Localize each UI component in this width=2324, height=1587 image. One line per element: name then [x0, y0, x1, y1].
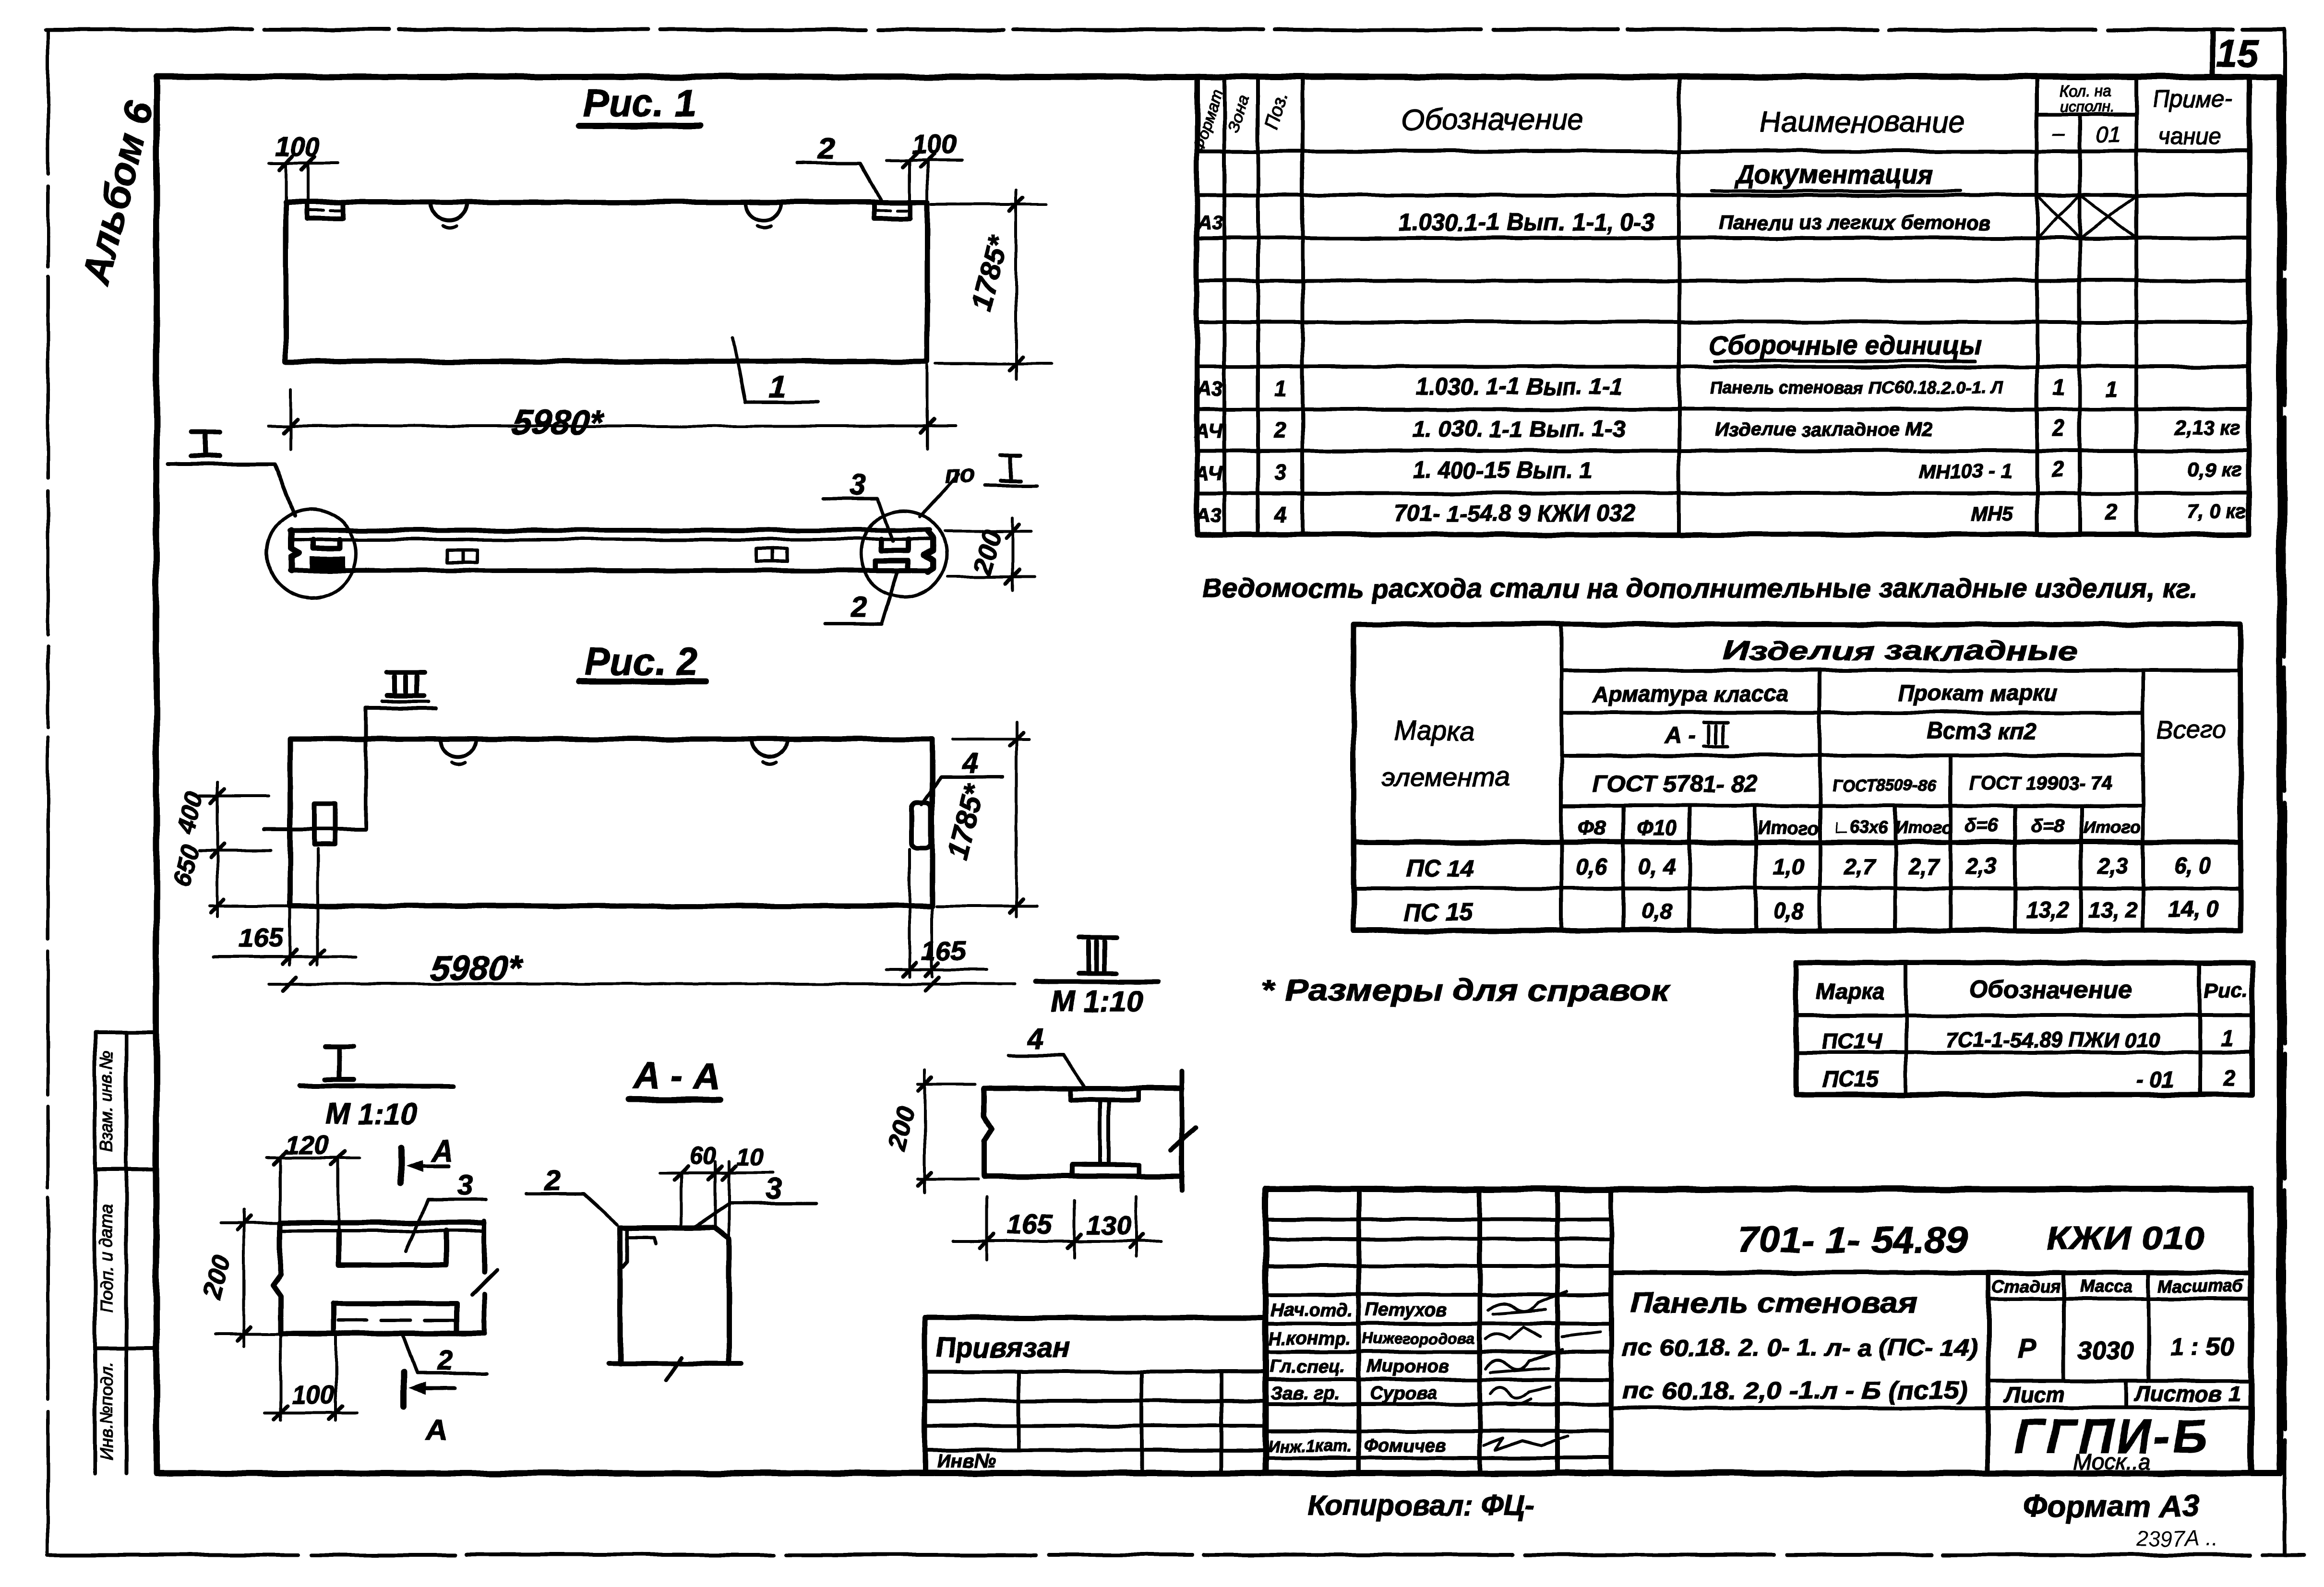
- svg-text:Итого: Итого: [1758, 818, 1819, 838]
- svg-text:1: 1: [2052, 374, 2065, 399]
- svg-text:пс 60.18. 2. 0- 1. л- а (ПС- 1: пс 60.18. 2. 0- 1. л- а (ПС- 14): [1622, 1334, 1977, 1361]
- steel table row ПС14: [1406, 853, 2211, 882]
- svg-text:2: 2: [2052, 416, 2065, 441]
- svg-text:60: 60: [689, 1142, 716, 1169]
- svg-text:Приме-: Приме-: [2153, 86, 2232, 112]
- fig1 title Рис.1: [579, 82, 700, 126]
- svg-text:Гл.спец.: Гл.спец.: [1270, 1357, 1345, 1377]
- svg-text:АЧ: АЧ: [1194, 419, 1223, 442]
- svg-text:Инв№: Инв№: [937, 1451, 996, 1472]
- svg-text:5980*: 5980*: [509, 404, 606, 442]
- title block signature rows: [1268, 1291, 1601, 1456]
- svg-text:1785*: 1785*: [941, 780, 991, 862]
- svg-text:15: 15: [2216, 32, 2260, 74]
- fig2 embedded plate 4 right: [911, 802, 931, 848]
- fig2 dim 5980: [269, 949, 1015, 990]
- svg-text:МН103 - 1: МН103 - 1: [1918, 460, 2013, 482]
- title block stadia row: [1992, 1276, 2244, 1407]
- svg-text:ВстЗ кп2: ВстЗ кп2: [1927, 719, 2036, 744]
- view A-A dims 60 10: [660, 1142, 773, 1236]
- svg-text:А3: А3: [1196, 378, 1222, 400]
- svg-text:Итого: Итого: [1895, 817, 1953, 837]
- svg-text:3030: 3030: [2078, 1337, 2134, 1365]
- svg-text:0,9 кг: 0,9 кг: [2188, 458, 2242, 480]
- section III dim 200: [882, 1070, 978, 1193]
- fig2 panel outline: [290, 739, 932, 906]
- fig2 dim 165 right: [886, 849, 986, 977]
- plan view callout по I: [920, 455, 1038, 516]
- bottom handwritten number: [2135, 1526, 2218, 1551]
- plan view right top notch item3: [881, 539, 908, 551]
- svg-text:1785*: 1785*: [965, 232, 1015, 314]
- svg-text:Нижегородова: Нижегородова: [1362, 1330, 1475, 1347]
- svg-text:Всего: Всего: [2157, 716, 2226, 744]
- svg-text:Изделия закладные: Изделия закладные: [1723, 635, 2078, 666]
- fig2 embedded plate 4 left: [314, 804, 335, 845]
- fig1 dim 100 right: [886, 129, 962, 202]
- svg-text:КЖИ 010: КЖИ 010: [2046, 1220, 2204, 1257]
- left strip label Взам.инв.№: [96, 1050, 116, 1153]
- svg-text:Панели из легких бетонов: Панели из легких бетонов: [1719, 211, 1991, 234]
- mark table grid: [1796, 963, 2252, 1095]
- svg-text:А - А: А - А: [632, 1054, 720, 1097]
- svg-text:650: 650: [168, 842, 205, 889]
- svg-text:Фомичев: Фомичев: [1364, 1436, 1446, 1456]
- section I top groove: [338, 1231, 446, 1265]
- svg-text:701- 1- 54.89: 701- 1- 54.89: [1737, 1220, 1968, 1261]
- page number 15 box: [2213, 32, 2260, 76]
- fig1 left groove: [307, 203, 343, 218]
- svg-text:100: 100: [291, 1381, 335, 1409]
- spec table row pos2: [1194, 416, 2241, 442]
- svg-text:Взам. инв.№: Взам. инв.№: [96, 1050, 116, 1153]
- section I body: [273, 1221, 497, 1334]
- svg-text:Подп. и дата: Подп. и дата: [96, 1205, 116, 1313]
- outer cut border right: [2283, 30, 2287, 1555]
- fig1 callout 1 leader: [732, 338, 818, 404]
- view A-A callout 3: [695, 1172, 816, 1227]
- fig1 panel outline: [286, 202, 927, 361]
- svg-text:7, 0 кг: 7, 0 кг: [2186, 500, 2246, 523]
- fig2 dim 1785: [936, 722, 1037, 917]
- fig1 lifting recess arc left: [431, 203, 467, 227]
- svg-text:400: 400: [171, 789, 209, 836]
- fig2 dim 165 left: [214, 849, 355, 965]
- svg-text:0,8: 0,8: [1641, 898, 1672, 923]
- fig2 callout 4: [922, 748, 1002, 804]
- svg-text:Марка: Марка: [1817, 979, 1885, 1004]
- svg-text:701- 1-54.8 9 КЖИ 032: 701- 1-54.8 9 КЖИ 032: [1394, 501, 1635, 526]
- svg-text:Миронов: Миронов: [1367, 1357, 1449, 1377]
- outer cut border bottom: [48, 1553, 2304, 1557]
- svg-text:ПС15: ПС15: [1822, 1067, 1879, 1092]
- section I dim 100: [265, 1335, 358, 1420]
- section I marker with scale: [300, 1047, 453, 1131]
- plan view middle slot pair left: [447, 550, 477, 562]
- svg-text:δ=8: δ=8: [2031, 815, 2065, 836]
- svg-text:Зона: Зона: [1224, 93, 1253, 134]
- view A-A callout 2: [527, 1164, 617, 1225]
- svg-text:1.030. 1-1 Вып. 1-1: 1.030. 1-1 Вып. 1-1: [1416, 374, 1623, 400]
- svg-text:Рис. 1: Рис. 1: [583, 82, 696, 124]
- svg-text:А3: А3: [1195, 504, 1222, 526]
- section III callout 4: [1008, 1023, 1084, 1086]
- svg-text:ПС 14: ПС 14: [1406, 855, 1474, 882]
- spec table header texts: [1189, 82, 2232, 155]
- plan view bar body: [290, 530, 930, 571]
- left stamp strip boxes: [95, 1033, 156, 1473]
- svg-text:Панель стеновая: Панель стеновая: [1629, 1288, 1917, 1319]
- svg-text:3: 3: [456, 1169, 472, 1201]
- section III marker with scale: [1036, 937, 1158, 1018]
- svg-text:165: 165: [238, 923, 283, 953]
- title block name: [1622, 1288, 1977, 1404]
- svg-text:Сборочные единицы: Сборочные единицы: [1709, 331, 1982, 360]
- spec table row 1.030.1-1 Вып.1-1,0-3: [1197, 195, 2136, 238]
- plan view left top notch item3: [313, 539, 340, 548]
- steel list caption: [1202, 573, 2198, 603]
- svg-text:Инж.1кат.: Инж.1кат.: [1268, 1437, 1352, 1456]
- spec table row Сборочные единицы: [1709, 331, 1982, 361]
- fig1 dim 100 left: [269, 131, 338, 202]
- plan view left bottom plate item2: [310, 556, 345, 570]
- fig2 lifting recess arc left: [441, 740, 476, 764]
- album label Альбом 6: [74, 96, 162, 289]
- svg-text:–: –: [2052, 121, 2065, 145]
- svg-text:14, 0: 14, 0: [2169, 896, 2218, 921]
- fig1 dim 1785: [931, 190, 1051, 379]
- plan view right bottom plate item2: [875, 561, 908, 570]
- svg-text:Масштаб: Масштаб: [2158, 1276, 2244, 1296]
- svg-text:Моск..а: Моск..а: [2073, 1449, 2150, 1474]
- svg-text:Стадия: Стадия: [1992, 1276, 2060, 1296]
- svg-text:7С1-1-54.89 ПЖИ 010: 7С1-1-54.89 ПЖИ 010: [1946, 1028, 2160, 1052]
- section III dims 165 130: [953, 1196, 1162, 1260]
- spec table row pos1: [1196, 374, 2118, 402]
- view A-A body: [609, 1228, 742, 1380]
- svg-text:4: 4: [1027, 1023, 1043, 1055]
- svg-text:2: 2: [1274, 418, 1287, 442]
- svg-text:2,7: 2,7: [1908, 854, 1940, 879]
- svg-text:2: 2: [437, 1344, 453, 1376]
- svg-text:Масса: Масса: [2080, 1276, 2133, 1296]
- svg-text:3: 3: [766, 1172, 781, 1205]
- svg-text:ГОСТ 5781- 82: ГОСТ 5781- 82: [1593, 770, 1758, 797]
- svg-text:13,2: 13,2: [2026, 897, 2069, 922]
- svg-text:2: 2: [544, 1164, 561, 1196]
- mark table texts: [1817, 976, 2248, 1092]
- steel table header texts: [1382, 635, 2226, 840]
- svg-text:1: 1: [769, 370, 786, 404]
- plan view section marker I left: [168, 432, 295, 515]
- svg-text:А: А: [425, 1413, 448, 1446]
- note Размеры для справок: [1261, 974, 1671, 1007]
- svg-text:Формат А3: Формат А3: [2023, 1489, 2199, 1523]
- fig1 right groove: [874, 203, 910, 218]
- svg-text:2: 2: [2223, 1065, 2236, 1090]
- svg-text:01: 01: [2096, 122, 2120, 147]
- spec table row Документация: [1711, 160, 1961, 191]
- svg-text:1 : 50: 1 : 50: [2170, 1333, 2234, 1361]
- section I callout 3: [406, 1169, 486, 1252]
- svg-text:М 1:10: М 1:10: [1051, 985, 1143, 1018]
- svg-text:Инв.№подл.: Инв.№подл.: [96, 1362, 116, 1459]
- bottom text Формат А3: [2023, 1489, 2199, 1523]
- svg-text:А -: А -: [1664, 723, 1695, 748]
- outer cut border left: [47, 30, 50, 1552]
- svg-text:Привязан: Привязан: [936, 1332, 1069, 1363]
- spec table row pos3: [1194, 457, 2242, 485]
- svg-text:2: 2: [818, 132, 835, 165]
- svg-text:ГОСТ8509-86: ГОСТ8509-86: [1833, 776, 1937, 795]
- svg-text:2,3: 2,3: [2097, 853, 2128, 878]
- fig2 section III cut line: [264, 708, 366, 829]
- svg-text:130: 130: [1086, 1210, 1131, 1240]
- svg-text:исполн.: исполн.: [2060, 97, 2114, 115]
- svg-text:2,3: 2,3: [1965, 853, 1997, 878]
- svg-text:3: 3: [850, 468, 866, 501]
- svg-text:Рис. 2: Рис. 2: [584, 640, 697, 683]
- svg-text:Марка: Марка: [1394, 716, 1474, 746]
- left strip label Подп. и дата: [96, 1205, 116, 1313]
- svg-text:4: 4: [962, 748, 978, 780]
- outer cut border top: [46, 28, 2284, 32]
- svg-text:165: 165: [1007, 1209, 1052, 1239]
- svg-text:2,13 кг: 2,13 кг: [2174, 417, 2240, 439]
- svg-text:пс 60.18. 2,0 -1.л - Б (пс15): пс 60.18. 2,0 -1.л - Б (пс15): [1622, 1377, 1968, 1404]
- svg-text:1. 400-15 Вып. 1: 1. 400-15 Вып. 1: [1413, 458, 1593, 483]
- plan view bar left end profile: [291, 530, 299, 571]
- svg-text:Кол. на: Кол. на: [2060, 82, 2111, 99]
- svg-text:элемента: элемента: [1382, 762, 1509, 792]
- svg-text:3: 3: [1274, 460, 1287, 485]
- steel table grid: [1354, 624, 2240, 931]
- svg-text:δ=6: δ=6: [1965, 815, 1999, 836]
- svg-text:120: 120: [286, 1131, 329, 1160]
- svg-text:5980*: 5980*: [428, 949, 525, 988]
- fig2 title Рис.2: [578, 640, 706, 683]
- bottom text Копировал: [1308, 1490, 1534, 1522]
- svg-text:Поз.: Поз.: [1260, 89, 1293, 132]
- plan view callout 3: [824, 468, 893, 541]
- svg-text:Арматура класса: Арматура класса: [1592, 681, 1788, 706]
- fig2 section III marker top: [366, 673, 436, 708]
- section I bottom groove: [334, 1303, 457, 1334]
- svg-text:Листов 1: Листов 1: [2133, 1381, 2240, 1406]
- svg-text:Сурова: Сурова: [1370, 1384, 1437, 1404]
- fig2 lifting recess arc right: [752, 740, 788, 764]
- svg-text:1.030.1-1 Вып. 1-1, 0-3: 1.030.1-1 Вып. 1-1, 0-3: [1398, 209, 1655, 236]
- svg-text:Ф8: Ф8: [1578, 816, 1606, 840]
- plan view detail circle right: [861, 511, 947, 597]
- title block grid: [1266, 1189, 2251, 1473]
- left strip label Инв.№подл.: [96, 1362, 116, 1459]
- svg-text:ГОСТ 19903- 74: ГОСТ 19903- 74: [1969, 773, 2112, 794]
- svg-text:13, 2: 13, 2: [2088, 897, 2138, 922]
- svg-text:АЧ: АЧ: [1194, 462, 1223, 484]
- svg-text:1,0: 1,0: [1773, 854, 1804, 879]
- svg-text:Нач.отд.: Нач.отд.: [1271, 1300, 1353, 1320]
- title block doc number: [1737, 1220, 2204, 1261]
- binding table text Инв№: [937, 1451, 996, 1472]
- svg-text:Документация: Документация: [1734, 160, 1933, 189]
- svg-text:Петухов: Петухов: [1366, 1300, 1447, 1320]
- section I callout 2: [402, 1334, 487, 1376]
- svg-text:1: 1: [1274, 376, 1287, 401]
- svg-text:6, 0: 6, 0: [2174, 853, 2211, 878]
- svg-text:2,7: 2,7: [1844, 854, 1876, 879]
- svg-text:Изделие закладное М2: Изделие закладное М2: [1715, 419, 1932, 440]
- svg-text:чание: чание: [2158, 124, 2221, 149]
- plan view dim 200: [946, 518, 1034, 590]
- svg-text:Обозначение: Обозначение: [1969, 976, 2132, 1004]
- svg-text:Н.контр.: Н.контр.: [1269, 1329, 1351, 1349]
- svg-text:1: 1: [2106, 377, 2118, 402]
- svg-text:10: 10: [736, 1144, 763, 1170]
- binding table grid: [925, 1318, 1266, 1473]
- svg-text:Зав. гр.: Зав. гр.: [1271, 1384, 1340, 1404]
- svg-text:4: 4: [1274, 502, 1287, 527]
- svg-text:Альбом 6: Альбом 6: [74, 96, 162, 289]
- svg-text:200: 200: [967, 526, 1007, 578]
- svg-text:165: 165: [921, 935, 966, 966]
- svg-text:0,8: 0,8: [1773, 898, 1804, 923]
- svg-text:Р: Р: [2017, 1334, 2036, 1364]
- section III I-beam item4: [1070, 1088, 1139, 1176]
- svg-text:Наименование: Наименование: [1760, 106, 1965, 139]
- binding table text Привязан: [936, 1332, 1069, 1363]
- plan view callout 2: [826, 573, 897, 624]
- plan view middle slot pair right: [757, 549, 787, 561]
- steel table row ПС15: [1404, 896, 2218, 926]
- svg-text:0,6: 0,6: [1576, 854, 1607, 879]
- svg-text:А: А: [431, 1135, 454, 1168]
- svg-text:Итого: Итого: [2083, 817, 2141, 837]
- plan view detail circle left: [267, 509, 356, 598]
- svg-text:М 1:10: М 1:10: [325, 1098, 418, 1131]
- section I dim 120: [266, 1131, 360, 1229]
- svg-text:200: 200: [198, 1253, 236, 1302]
- svg-text:Ведомость расхода стали на доп: Ведомость расхода стали на дополнительны…: [1202, 573, 2198, 603]
- svg-text:2397А ..: 2397А ..: [2135, 1526, 2218, 1551]
- svg-text:Обозначение: Обозначение: [1402, 103, 1584, 136]
- svg-text:ПС 15: ПС 15: [1404, 899, 1473, 926]
- svg-text:2: 2: [2052, 457, 2065, 482]
- svg-text:ПС1Ч: ПС1Ч: [1822, 1028, 1882, 1053]
- fig1 dim 5980: [269, 365, 955, 449]
- svg-text:200: 200: [882, 1104, 920, 1153]
- svg-text:МН5: МН5: [1971, 502, 2013, 525]
- svg-text:∟63х6: ∟63х6: [1833, 817, 1888, 837]
- section I dim 200: [198, 1209, 280, 1346]
- svg-text:А3: А3: [1197, 211, 1223, 234]
- title block logo ГГПИ-Б: [2014, 1410, 2210, 1474]
- svg-text:2: 2: [2105, 499, 2118, 524]
- svg-text:Рис.: Рис.: [2204, 978, 2249, 1002]
- svg-text:Копировал: ФЦ-: Копировал: ФЦ-: [1308, 1490, 1534, 1522]
- plan view bar right end profile: [923, 531, 933, 572]
- svg-text:* Размеры для справок: * Размеры для справок: [1261, 974, 1671, 1007]
- fig2 dim 400 650: [168, 782, 290, 917]
- section III body: [984, 1071, 1195, 1191]
- fig1 lifting recess arc right: [745, 203, 781, 227]
- fig1 callout 2 leader: [798, 132, 882, 202]
- svg-text:Панель стеновая ПС60.18.2.0-1.: Панель стеновая ПС60.18.2.0-1. Л: [1711, 378, 2003, 397]
- section I cut arrows А-А: [401, 1135, 455, 1446]
- svg-text:0, 4: 0, 4: [1639, 854, 1676, 879]
- svg-text:1. 030. 1-1 Вып. 1-3: 1. 030. 1-1 Вып. 1-3: [1413, 417, 1626, 442]
- svg-text:Ф10: Ф10: [1637, 816, 1677, 840]
- svg-text:Лист: Лист: [2003, 1382, 2065, 1407]
- svg-text:Прокат марки: Прокат марки: [1898, 680, 2057, 705]
- svg-text:- 01: - 01: [2136, 1067, 2174, 1092]
- spec table row pos4: [1195, 499, 2247, 527]
- spec table grid: [1197, 78, 2249, 535]
- svg-text:1: 1: [2221, 1026, 2233, 1051]
- view A-A title: [629, 1054, 720, 1100]
- svg-text:2: 2: [851, 591, 867, 623]
